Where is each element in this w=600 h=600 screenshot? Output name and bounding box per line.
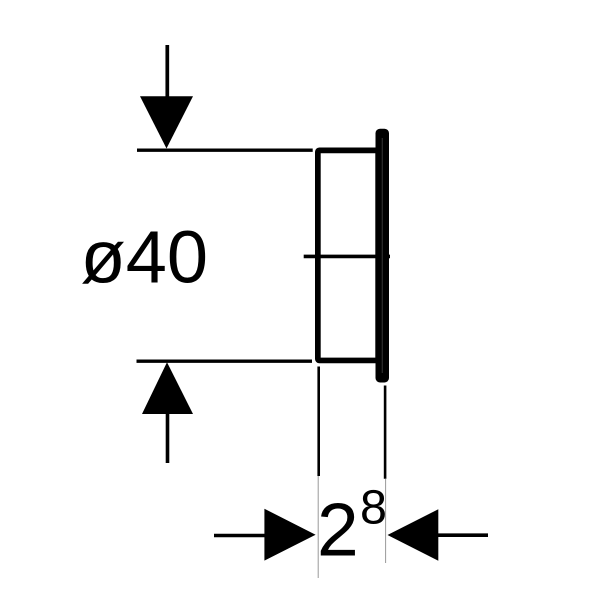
svg-text:2: 2: [317, 488, 359, 572]
svg-text:ø40: ø40: [81, 216, 209, 299]
svg-text:8: 8: [360, 481, 387, 535]
